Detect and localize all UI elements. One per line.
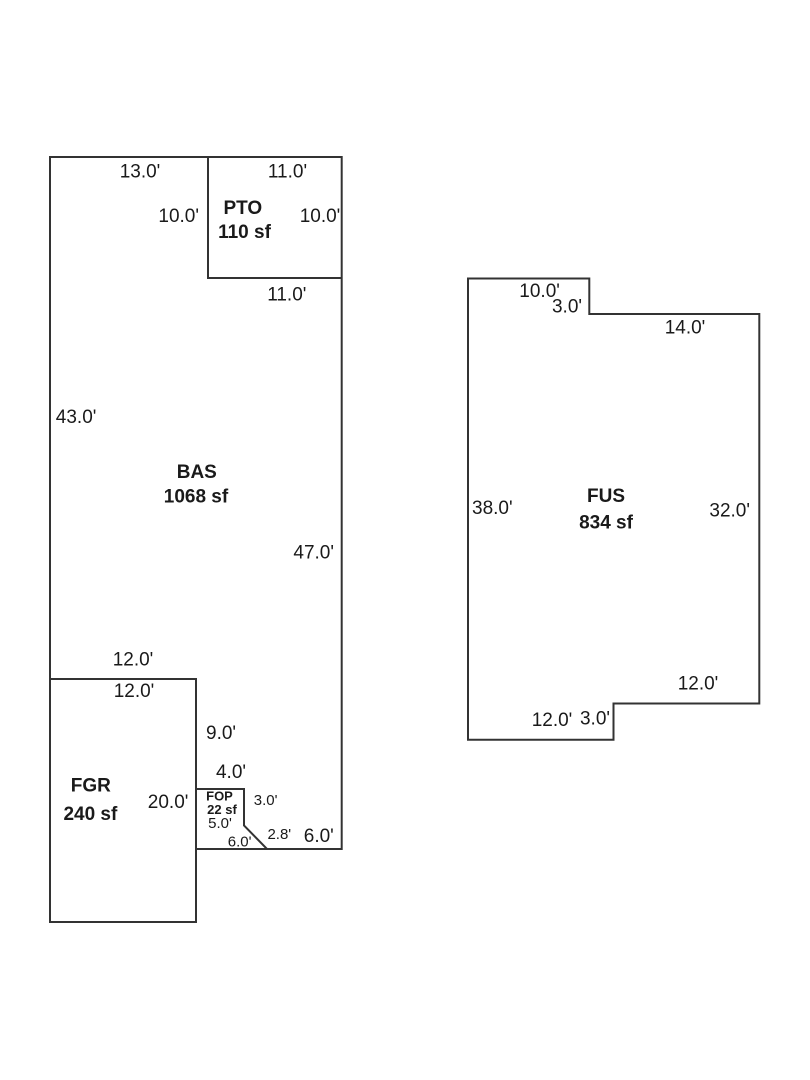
room FGR outline bbox=[50, 679, 196, 922]
svg-text:3.0': 3.0' bbox=[254, 792, 278, 809]
svg-text:12.0': 12.0' bbox=[114, 681, 155, 702]
svg-text:10.0': 10.0' bbox=[300, 206, 341, 227]
svg-text:13.0': 13.0' bbox=[120, 162, 161, 183]
room PTO divider walls bbox=[208, 157, 342, 278]
svg-text:10.0': 10.0' bbox=[158, 206, 199, 227]
svg-text:38.0': 38.0' bbox=[472, 498, 513, 519]
svg-text:6.0': 6.0' bbox=[228, 834, 252, 851]
svg-text:3.0': 3.0' bbox=[552, 297, 582, 318]
svg-text:BAS: BAS bbox=[177, 462, 217, 483]
svg-text:2.8': 2.8' bbox=[267, 826, 291, 843]
svg-text:PTO: PTO bbox=[223, 198, 262, 219]
svg-text:1068 sf: 1068 sf bbox=[164, 487, 229, 508]
svg-text:12.0': 12.0' bbox=[678, 674, 719, 695]
svg-text:12.0': 12.0' bbox=[113, 650, 154, 671]
svg-text:14.0': 14.0' bbox=[665, 318, 706, 339]
svg-text:47.0': 47.0' bbox=[293, 543, 334, 564]
svg-text:FUS: FUS bbox=[587, 486, 625, 507]
svg-text:11.0': 11.0' bbox=[268, 162, 307, 183]
svg-text:11.0': 11.0' bbox=[267, 285, 306, 306]
svg-text:43.0': 43.0' bbox=[56, 407, 97, 428]
svg-text:834 sf: 834 sf bbox=[579, 513, 634, 534]
svg-text:32.0': 32.0' bbox=[709, 501, 750, 522]
porch FOP bottom wall bbox=[196, 848, 267, 850]
svg-text:3.0': 3.0' bbox=[580, 709, 610, 730]
svg-text:240 sf: 240 sf bbox=[63, 804, 118, 825]
svg-text:12.0': 12.0' bbox=[532, 710, 573, 731]
svg-text:6.0': 6.0' bbox=[304, 826, 334, 847]
room FUS outline bbox=[468, 279, 759, 740]
svg-text:FGR: FGR bbox=[71, 776, 111, 797]
svg-text:4.0': 4.0' bbox=[216, 762, 246, 783]
room BAS outline bbox=[50, 157, 342, 849]
svg-text:20.0': 20.0' bbox=[148, 792, 189, 813]
svg-text:5.0': 5.0' bbox=[208, 815, 232, 832]
svg-text:9.0': 9.0' bbox=[206, 723, 236, 744]
svg-text:110 sf: 110 sf bbox=[218, 222, 271, 243]
